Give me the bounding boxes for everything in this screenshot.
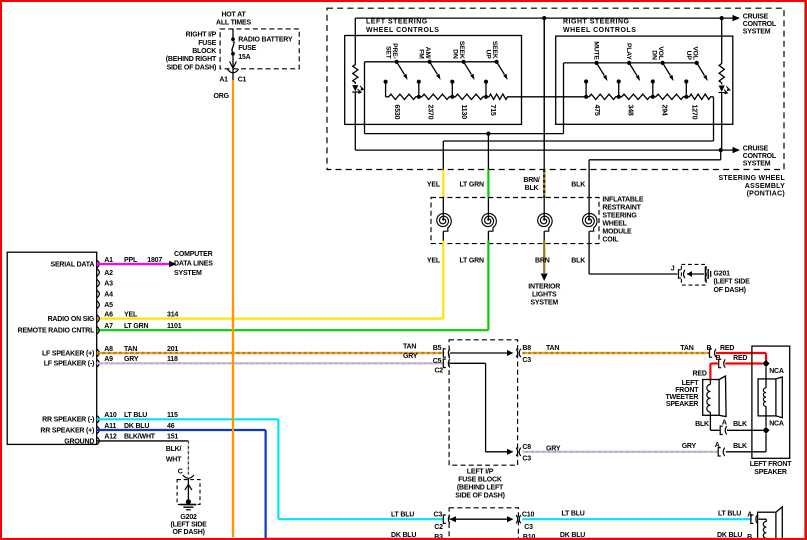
coil (BLK circuit) [583, 210, 598, 241]
pin A3 [97, 279, 113, 287]
svg-text:BLK: BLK [733, 421, 747, 428]
svg-text:A7: A7 [104, 323, 113, 330]
resistor 2370 (left pack) [417, 94, 453, 119]
svg-text:B8: B8 [522, 345, 531, 352]
svg-text:FUSE: FUSE [198, 40, 216, 47]
pin A7 LT GRN 1101 - REMOTE RADIO CNTRL [18, 323, 182, 335]
svg-text:715: 715 [489, 105, 496, 116]
resistor 1130 (left pack) [450, 94, 486, 119]
svg-text:6530: 6530 [393, 105, 400, 120]
svg-text:201: 201 [167, 346, 178, 353]
svg-text:A5: A5 [104, 302, 113, 309]
speaker: right rear (partial at page edge) [758, 507, 783, 540]
wire BLK (tweeter - to splice A) [695, 415, 719, 430]
svg-text:CRUISE: CRUISE [743, 145, 769, 152]
switch MUTE (right controls) [593, 41, 608, 81]
svg-text:ASSEMBLY: ASSEMBLY [745, 183, 785, 190]
resistor 294 (right pack) [651, 94, 687, 116]
ground G202 (left side of dash) [171, 479, 208, 536]
wire BLK (above coil) [571, 160, 589, 210]
svg-text:NCA: NCA [769, 420, 784, 427]
switch AM/FM (left controls) [418, 47, 441, 80]
left I/P fuse block pass-through (dashed box, bottom) [449, 508, 518, 539]
left switch pack box [345, 36, 522, 125]
contact stub VOLUP [684, 79, 688, 96]
svg-text:SPEAKER: SPEAKER [666, 401, 699, 408]
svg-text:SYSTEM: SYSTEM [743, 160, 771, 167]
switch PLAY (right controls) [625, 43, 640, 81]
wire DK BLU (fuse block to speaker) [522, 532, 752, 540]
svg-text:GRY: GRY [403, 353, 418, 360]
connector B5 (TAN in) [433, 345, 450, 357]
resistor+LED illumination (right controls) [719, 18, 730, 150]
svg-text:PPL: PPL [124, 257, 138, 264]
svg-text:A8: A8 [104, 346, 113, 353]
switch SEEKUP (left controls) [485, 41, 508, 80]
contact stub PRE-SET [384, 80, 388, 97]
contact stub AM/FM [417, 80, 421, 97]
wire BRN to interior lights system [528, 241, 560, 307]
svg-text:C3: C3 [434, 511, 443, 518]
inflatable restraint steering wheel module coil (dashed box) [431, 196, 644, 243]
svg-text:LT BLU: LT BLU [562, 511, 585, 518]
svg-text:C3: C3 [522, 357, 531, 364]
svg-text:STEERING: STEERING [602, 212, 637, 219]
svg-text:1101: 1101 [167, 323, 182, 330]
svg-text:BRN: BRN [535, 258, 550, 265]
switch VOL UP (right controls) [685, 46, 708, 81]
wire: switch bus net (LT GRN source) [365, 133, 564, 135]
svg-text:CRUISE: CRUISE [743, 13, 769, 20]
svg-text:BLK/: BLK/ [166, 446, 182, 453]
svg-text:RADIO BATTERY: RADIO BATTERY [238, 37, 293, 44]
svg-text:WHT: WHT [166, 456, 182, 463]
svg-text:GROUND: GROUND [64, 438, 94, 445]
svg-text:C2: C2 [434, 524, 443, 531]
svg-text:C2: C2 [434, 367, 443, 374]
svg-text:BLOCK: BLOCK [192, 48, 216, 55]
svg-text:LT GRN: LT GRN [460, 258, 484, 265]
svg-text:SYSTEM: SYSTEM [174, 270, 202, 277]
svg-text:YEL: YEL [124, 311, 138, 318]
svg-text:NCA: NCA [769, 368, 784, 375]
svg-text:RIGHT STEERING: RIGHT STEERING [563, 18, 630, 25]
svg-text:C8: C8 [522, 444, 531, 451]
wire RED (splice to speaker + junction) [716, 353, 766, 362]
svg-text:DN: DN [651, 50, 658, 60]
svg-text:UP: UP [685, 51, 692, 61]
svg-text:BLK: BLK [695, 421, 709, 428]
wire YEL (below coil) to radio A6 [97, 241, 444, 319]
radio (connector C1) box [7, 252, 97, 444]
svg-text:FUSE: FUSE [238, 45, 256, 52]
svg-text:SPEAKER: SPEAKER [754, 469, 787, 476]
svg-text:RR SPEAKER (-): RR SPEAKER (-) [42, 417, 94, 424]
svg-text:C: C [178, 468, 183, 475]
right steering wheel controls title [563, 18, 636, 34]
svg-text:INTERIOR: INTERIOR [528, 283, 560, 290]
svg-text:MODULE: MODULE [602, 228, 632, 235]
svg-text:TAN: TAN [680, 345, 693, 352]
svg-text:DATA LINES: DATA LINES [174, 261, 213, 268]
svg-text:WHEEL: WHEEL [602, 220, 627, 227]
svg-text:ORG: ORG [214, 93, 230, 100]
svg-text:PLAY: PLAY [625, 43, 632, 60]
coil (BRN/BLK circuit) [538, 210, 553, 241]
wire: resistor chain link between packs [511, 96, 587, 98]
svg-text:YEL: YEL [427, 181, 441, 188]
svg-text:115: 115 [167, 412, 178, 419]
svg-text:A4: A4 [104, 291, 113, 298]
svg-text:STEERING WHEEL: STEERING WHEEL [718, 175, 785, 182]
svg-text:RED: RED [693, 370, 707, 377]
svg-text:BLK: BLK [571, 181, 585, 188]
pin A11 DK BLU 46 - RR SPEAKER (+) [40, 423, 174, 435]
svg-text:LF SPEAKER (+): LF SPEAKER (+) [42, 350, 94, 357]
wire ORG (overlay at crossings) [232, 300, 234, 538]
pin A10 LT BLU 115 - RR SPEAKER (-) [42, 412, 178, 424]
svg-text:(LEFT SIDE: (LEFT SIDE [171, 521, 208, 528]
svg-text:J: J [671, 265, 675, 272]
connector J (to G201) [671, 265, 685, 278]
wire: top common feed to cruise control (net with BRN/BLK) [355, 17, 733, 19]
wire DK BLU 46 (radio toward speaker) [97, 430, 445, 539]
svg-text:LT GRN: LT GRN [124, 323, 148, 330]
svg-text:LF SPEAKER (-): LF SPEAKER (-) [44, 361, 94, 368]
coil (YEL circuit) [437, 210, 452, 241]
svg-text:RED: RED [720, 345, 734, 352]
wire: left switch common bus [365, 62, 497, 134]
svg-text:475: 475 [593, 105, 600, 116]
left steering wheel controls outer box [355, 18, 544, 150]
splice A (tweeter return) [720, 419, 762, 434]
pin A5 [97, 301, 113, 309]
splice B (TAN to RED) [707, 345, 735, 357]
resistor 6530 (left pack) [386, 94, 419, 119]
svg-text:46: 46 [167, 423, 175, 430]
wire ORG circuit 1040 (radio battery feed) [214, 80, 233, 538]
svg-text:BLK: BLK [571, 258, 585, 265]
svg-text:RADIO ON SIG: RADIO ON SIG [48, 316, 95, 323]
svg-text:BLK/WHT: BLK/WHT [124, 434, 156, 441]
left I/P fuse block (dashed box) [449, 340, 517, 500]
svg-text:HOT AT: HOT AT [221, 12, 246, 19]
svg-text:OF DASH): OF DASH) [172, 529, 204, 536]
svg-text:CONTROL: CONTROL [743, 153, 777, 160]
resistor 1270 (right pack) [684, 94, 713, 119]
svg-text:LIGHTS: LIGHTS [532, 291, 557, 298]
svg-text:A10: A10 [104, 412, 117, 419]
svg-text:(LEFT SIDE: (LEFT SIDE [714, 279, 751, 286]
svg-text:RR SPEAKER (+): RR SPEAKER (+) [40, 427, 94, 434]
svg-text:A1: A1 [104, 257, 113, 264]
wire: right switch common bus [564, 63, 698, 134]
pin A8 TAN 201 - LF SPEAKER (+) [42, 346, 178, 358]
svg-text:YEL: YEL [427, 258, 441, 265]
wire BLK/WHT 151 (radio ground) [97, 441, 189, 475]
ground G201 (left side of dash) [681, 264, 750, 293]
svg-text:SYSTEM: SYSTEM [743, 28, 771, 35]
wire LT GRN (below coil) to radio A7 [97, 241, 489, 330]
connector C5/C2 (GRY in) [433, 358, 450, 375]
wire TAN 201 (radio to fuse block) [97, 343, 445, 353]
svg-text:118: 118 [167, 356, 178, 363]
cruise control system tap (bottom) [733, 145, 777, 167]
svg-text:REMOTE RADIO CNTRL: REMOTE RADIO CNTRL [18, 328, 95, 335]
svg-text:B: B [716, 355, 721, 362]
svg-text:LT BLU: LT BLU [718, 511, 741, 518]
pin A2 [97, 269, 113, 277]
svg-text:BLK: BLK [733, 443, 747, 450]
svg-text:C3: C3 [524, 524, 533, 531]
svg-text:UP: UP [485, 50, 492, 60]
svg-text:SIDE OF DASH): SIDE OF DASH) [167, 64, 217, 71]
wire LT BLU 115 (radio to fuse block) [97, 419, 445, 519]
svg-text:1130: 1130 [460, 105, 467, 120]
svg-text:INFLATABLE: INFLATABLE [602, 196, 643, 203]
wire GRY 118 (radio to fuse block) [97, 353, 445, 363]
right switch pack box [556, 36, 733, 124]
svg-text:1807: 1807 [147, 257, 162, 264]
fuse block internal link C3-C10 [450, 515, 521, 523]
resistor 348 (right pack) [617, 94, 653, 116]
switch SEEKDN (left controls) [452, 41, 475, 80]
svg-text:A11: A11 [104, 423, 116, 430]
svg-text:COIL: COIL [602, 236, 619, 243]
svg-text:SIDE OF DASH): SIDE OF DASH) [455, 492, 505, 499]
wire TAN (fuse block to tweeter splice) [522, 345, 709, 353]
svg-text:WHEEL CONTROLS: WHEEL CONTROLS [563, 27, 636, 34]
svg-text:G201: G201 [714, 270, 731, 277]
wire BLK (below coil) to ground G201 [571, 241, 677, 274]
wire: resistor chain output (YEL source) [443, 97, 713, 141]
junction: LT GRN drop [486, 132, 490, 136]
svg-text:GRY: GRY [546, 445, 561, 452]
junction: left front speaker (+) node [762, 360, 769, 367]
cruise control system tap (top) [733, 13, 777, 35]
connector A1 C1 (fuse block output) [219, 69, 246, 84]
svg-text:TAN: TAN [124, 346, 137, 353]
svg-text:314: 314 [167, 311, 178, 318]
svg-text:1270: 1270 [691, 105, 698, 120]
pin A12 BLK/WHT 151 - GROUND [64, 434, 178, 446]
wire BRN/BLK (above coil) [523, 18, 544, 210]
svg-text:(PONTIAC): (PONTIAC) [747, 191, 785, 198]
fuse RADIO BATTERY FUSE 15A [230, 29, 293, 68]
svg-text:LEFT STEERING: LEFT STEERING [366, 18, 428, 25]
contact stub SEEKUP [484, 80, 488, 97]
svg-text:SERIAL DATA: SERIAL DATA [50, 261, 94, 268]
svg-text:RIGHT I/P: RIGHT I/P [186, 32, 217, 39]
contact stub MUTE [584, 79, 588, 96]
splice B (RED branch to tweeter) [693, 355, 763, 380]
coil (LT GRN circuit) [482, 210, 497, 241]
junction: right illumination wire taps top feed [720, 16, 724, 20]
svg-text:TAN: TAN [546, 345, 559, 352]
svg-text:MUTE: MUTE [593, 41, 600, 60]
svg-text:(BEHIND LEFT: (BEHIND LEFT [457, 484, 504, 491]
svg-text:GRY: GRY [124, 356, 139, 363]
svg-text:BLK: BLK [525, 185, 539, 192]
svg-text:SYSTEM: SYSTEM [530, 299, 558, 306]
junction: cruise/illumination/BLK node [719, 148, 723, 152]
svg-text:A3: A3 [104, 281, 113, 288]
svg-text:FUSE BLOCK: FUSE BLOCK [458, 476, 502, 483]
svg-text:LEFT FRONT: LEFT FRONT [750, 461, 792, 468]
svg-text:A: A [722, 419, 727, 426]
svg-text:CONTROL: CONTROL [743, 21, 777, 28]
node HOT AT ALL TIMES (battery feed label) [216, 12, 252, 27]
svg-text:COMPUTER: COMPUTER [174, 251, 213, 258]
fuse block internal link B5-B8 [450, 349, 521, 357]
svg-text:A6: A6 [104, 311, 113, 318]
pin A9 GRY 118 - LF SPEAKER (-) [44, 356, 178, 368]
junction: BRN/BLK taps top feed [542, 16, 546, 20]
svg-text:C10: C10 [522, 511, 535, 518]
wire PPL 1807 serial data to computer data lines [97, 251, 214, 277]
svg-text:A2: A2 [104, 270, 113, 277]
svg-text:15A: 15A [238, 54, 250, 61]
svg-text:WHEEL CONTROLS: WHEEL CONTROLS [366, 27, 439, 34]
svg-text:LT GRN: LT GRN [460, 181, 484, 188]
svg-text:A9: A9 [104, 356, 113, 363]
svg-text:DN: DN [452, 49, 459, 59]
connector C10/C3 (LT BLU out) [522, 511, 536, 540]
svg-text:FM: FM [418, 49, 425, 59]
steering wheel assembly boundary (PONTIAC) dashed box [327, 8, 785, 197]
svg-text:A1: A1 [219, 76, 228, 83]
resistor 475 (right pack) [584, 94, 619, 116]
svg-text:B5: B5 [433, 345, 442, 352]
fuse block internal link C5-C8 [450, 363, 521, 456]
svg-text:RESTRAINT: RESTRAINT [602, 204, 641, 211]
connector C (to G202) [178, 468, 194, 478]
svg-text:TAN: TAN [403, 343, 416, 350]
svg-text:LEFT I/P: LEFT I/P [467, 468, 494, 475]
wire LT BLU (fuse block to speaker) [522, 511, 752, 520]
wire: BLK jog from cruise node [589, 150, 721, 160]
splice A (GRY to BLK) [715, 434, 766, 456]
svg-text:RED: RED [733, 355, 747, 362]
pin A4 [97, 290, 113, 298]
wire: bottom feed to cruise control [355, 149, 733, 151]
connector C3 (LT BLU in) [434, 511, 450, 540]
switch PRE-SET (left controls) [385, 43, 408, 80]
svg-text:BRN/: BRN/ [523, 177, 540, 184]
svg-text:DK BLU: DK BLU [124, 423, 149, 430]
svg-text:C1: C1 [238, 76, 247, 83]
contact stub SEEKDN [450, 80, 454, 97]
svg-text:ALL TIMES: ALL TIMES [216, 20, 252, 27]
svg-text:C5: C5 [433, 358, 442, 365]
svg-text:LT BLU: LT BLU [124, 412, 147, 419]
svg-text:348: 348 [626, 105, 633, 116]
speaker: left front (box) [750, 346, 792, 476]
svg-text:LT BLU: LT BLU [391, 511, 414, 518]
svg-text:C3: C3 [522, 456, 531, 463]
switch VOL DN (right controls) [651, 46, 674, 81]
svg-text:A12: A12 [104, 434, 117, 441]
speaker: left front tweeter [665, 376, 726, 417]
wire LT GRN (above coil) [460, 134, 489, 211]
fuse block RIGHT I/P FUSE BLOCK (dashed box) [166, 29, 299, 72]
svg-text:294: 294 [660, 105, 667, 116]
svg-text:GRY: GRY [682, 443, 697, 450]
svg-text:(BEHIND RIGHT: (BEHIND RIGHT [166, 56, 217, 63]
connector C8/C3 (GRY out) [522, 444, 531, 463]
resistor 715 (left pack) [484, 94, 511, 116]
svg-text:OF DASH): OF DASH) [714, 287, 746, 294]
wire YEL (above coil) [427, 141, 443, 210]
wire GRY (fuse block to speaker splice) [522, 443, 718, 452]
svg-text:151: 151 [167, 434, 178, 441]
connector A (RR speaker +) [751, 515, 758, 523]
connector B8/C3 (TAN out) [522, 345, 531, 364]
contact stub VOLDN [651, 79, 655, 96]
svg-text:G202: G202 [180, 514, 197, 521]
pin A6 YEL 314 - RADIO ON SIG [48, 311, 179, 323]
svg-text:SET: SET [385, 46, 392, 60]
resistor+LED illumination (left controls) [352, 63, 363, 93]
svg-text:2370: 2370 [426, 105, 433, 120]
contact stub PLAY [617, 79, 621, 96]
pin A1 PPL 1807 - SERIAL DATA [50, 257, 162, 269]
junction: left front speaker (-) node [762, 427, 769, 434]
